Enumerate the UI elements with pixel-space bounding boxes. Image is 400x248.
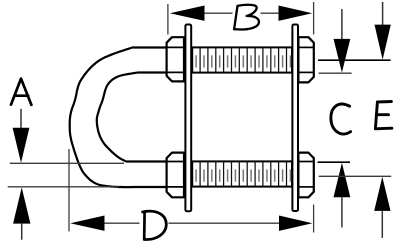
label C: [331, 104, 351, 134]
dimension A arrow down: [13, 128, 30, 163]
wire: top leg bottom edge: [138, 71, 169, 73]
U-bolt bend outer arc: [70, 48, 140, 188]
dimension A extension line bottom: [8, 186, 119, 188]
thread hatching bottom: [196, 161, 290, 186]
dimension D extension line left: [68, 149, 70, 231]
dimension C arrow top: [334, 39, 351, 73]
thread hatching top: [196, 47, 290, 72]
dimension D line right segment: [169, 222, 281, 224]
dimension B extension line left: [167, 4, 169, 35]
dimension A leader top: [20, 109, 22, 128]
hex nut bottom-left: [167, 153, 184, 198]
dimension D arrow left: [70, 216, 104, 231]
threaded rod top: [192, 47, 292, 72]
wire: bottom leg bottom edge: [140, 186, 168, 188]
dimension D arrow right: [279, 216, 312, 231]
threaded rod bottom: [192, 161, 292, 186]
dimension E arrow bottom: [374, 177, 390, 211]
dimension E reference line top: [318, 59, 391, 61]
dimension D line left segment: [103, 222, 140, 224]
U-bolt bend inner arc: [97, 73, 138, 162]
dimension E reference line bottom: [319, 175, 392, 177]
dimension E arrow top: [375, 25, 391, 60]
wire: top leg top edge: [132, 46, 168, 48]
dimension E leader top: [382, 2, 384, 25]
label A: [11, 79, 31, 105]
dimension C reference line top: [319, 72, 352, 74]
label E: [375, 102, 392, 129]
dimension C reference line bottom: [318, 161, 351, 163]
dimension B arrow left: [170, 6, 205, 21]
label D: [143, 211, 167, 239]
label B: [234, 5, 259, 30]
dimension A extension line top: [10, 162, 124, 164]
dimension C leader top: [341, 9, 343, 40]
wire: bottom leg top edge: [126, 160, 168, 162]
dimension D extension line right: [313, 205, 315, 233]
hex nut top-right: [298, 37, 313, 82]
hex nut bottom-right: [298, 153, 313, 198]
dimension A leader bottom: [21, 224, 23, 240]
hex nut top-left: [167, 37, 184, 81]
dimension E leader bottom: [381, 211, 383, 238]
dimension B extension line right: [313, 2, 315, 35]
dimension A arrow up: [13, 187, 30, 223]
dimension B line left segment: [204, 12, 233, 14]
dimension C leader bottom: [341, 197, 343, 227]
dimension B arrow right: [279, 6, 313, 21]
dimension B line right segment: [261, 12, 280, 14]
left retaining plate: [185, 25, 191, 212]
dimension C arrow bottom: [334, 163, 351, 198]
right retaining plate: [292, 25, 298, 212]
